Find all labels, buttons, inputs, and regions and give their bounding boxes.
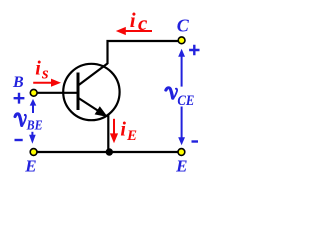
svg-text:s: s xyxy=(41,64,49,83)
voltage arrow vBE down xyxy=(31,132,33,137)
voltage arrow vCE up xyxy=(181,55,183,87)
plus sign right xyxy=(189,45,199,55)
svg-text:c: c xyxy=(138,11,148,35)
label vCE xyxy=(166,88,178,99)
wire emitter vertical xyxy=(107,115,109,152)
label vBE xyxy=(15,114,26,126)
svg-text:i: i xyxy=(35,58,41,80)
transistor Q1 base bar xyxy=(77,73,80,111)
current arrow iE xyxy=(113,119,115,136)
svg-text:CE: CE xyxy=(177,93,194,109)
junction node dot xyxy=(106,148,113,155)
svg-text:i: i xyxy=(120,119,126,141)
svg-text:E: E xyxy=(126,128,137,144)
terminal B xyxy=(30,89,37,96)
minus sign right xyxy=(192,140,199,142)
svg-text:B: B xyxy=(12,74,24,91)
plus sign left xyxy=(14,93,25,104)
transistor Q1 circle xyxy=(63,64,119,120)
current arrow iS xyxy=(33,82,53,84)
terminal C xyxy=(178,37,185,44)
wire top (collector to C terminal) xyxy=(108,41,182,64)
svg-text:i: i xyxy=(130,8,136,32)
current arrow iC xyxy=(124,30,152,32)
svg-text:E: E xyxy=(175,157,187,176)
svg-text:C: C xyxy=(177,16,190,36)
minus sign left xyxy=(15,139,23,141)
svg-text:BE: BE xyxy=(26,119,43,134)
voltage arrow vCE down xyxy=(181,107,183,140)
voltage arrow vBE up xyxy=(32,105,34,114)
wire bottom (E to E) xyxy=(34,151,182,153)
transistor Q1 emitter diagonal with arrow xyxy=(78,98,100,112)
transistor Q1 collector diagonal xyxy=(78,63,107,85)
wire base (B terminal to base bar) xyxy=(34,92,78,94)
terminal E left xyxy=(30,149,37,156)
terminal E right xyxy=(178,149,185,156)
svg-text:E: E xyxy=(24,156,36,175)
